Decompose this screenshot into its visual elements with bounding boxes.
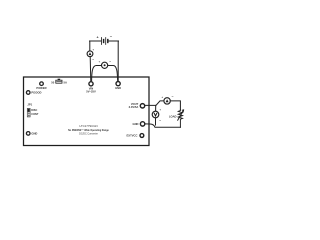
EXTVCC turret: [140, 134, 144, 138]
svg-text:GND: GND: [115, 86, 121, 90]
wire battery right down to GND terminal: [117, 41, 119, 81]
ammeter A2: [164, 98, 170, 104]
svg-text:3.3V/5A: 3.3V/5A: [129, 105, 139, 109]
wire VOUT junction down to voltmeter: [155, 105, 157, 111]
svg-text:GND: GND: [31, 132, 37, 136]
svg-text:+: +: [99, 60, 101, 64]
svg-text:JP1: JP1: [27, 102, 32, 106]
svg-text:LOAD: LOAD: [169, 114, 177, 118]
voltmeter V2: [152, 111, 159, 118]
voltmeter branch wire across input: [92, 66, 118, 81]
GND input terminal: [116, 82, 120, 86]
wire voltmeter bottom to gnd rail: [155, 118, 157, 125]
jumper JP1 header: [27, 108, 30, 117]
svg-text:PGOOD: PGOOD: [31, 91, 41, 95]
svg-text:50: 50: [51, 80, 54, 84]
battery BT1: [90, 38, 119, 45]
svg-text:EXTVCC: EXTVCC: [126, 133, 137, 137]
voltmeter V1: [102, 62, 108, 68]
PGOOD turret E2: [26, 91, 30, 95]
svg-text:+: +: [97, 35, 99, 39]
wire ammeter down to VIN terminal: [89, 57, 92, 82]
svg-text:DC/DC Converter: DC/DC Converter: [79, 133, 98, 136]
board outline U1 demo board: [24, 77, 150, 146]
wire ammeter to load top: [170, 101, 180, 110]
svg-text:GND: GND: [133, 122, 139, 126]
svg-text:5A: 5A: [63, 80, 66, 84]
svg-text:DISC: DISC: [31, 109, 37, 112]
wire GND terminal to load bottom: [145, 124, 181, 127]
GND output terminal: [140, 122, 144, 126]
svg-text:+: +: [161, 95, 163, 99]
svg-text:−: −: [109, 59, 111, 63]
wire VOUT to ammeter junction: [145, 101, 164, 106]
POWER turret E1: [40, 82, 44, 86]
load resistor R-LOAD: [178, 110, 184, 128]
switch S1 body: [56, 79, 62, 84]
svg-text:−: −: [172, 95, 174, 99]
svg-text:LTC1779CGN: LTC1779CGN: [79, 124, 97, 128]
svg-text:CONT: CONT: [31, 113, 39, 116]
VIN input terminal: [89, 82, 93, 86]
svg-text:−: −: [110, 34, 113, 39]
wire battery left down to ammeter: [89, 41, 91, 51]
GND turret bottom left: [26, 132, 30, 136]
svg-text:5V–25V: 5V–25V: [86, 89, 96, 93]
ammeter A1: [87, 51, 93, 57]
VOUT output terminal: [140, 104, 144, 108]
svg-text:−: −: [159, 119, 161, 123]
svg-text:−: −: [92, 58, 94, 62]
svg-text:+: +: [92, 47, 94, 51]
svg-text:POWER: POWER: [36, 86, 46, 90]
svg-text:+: +: [159, 108, 161, 112]
